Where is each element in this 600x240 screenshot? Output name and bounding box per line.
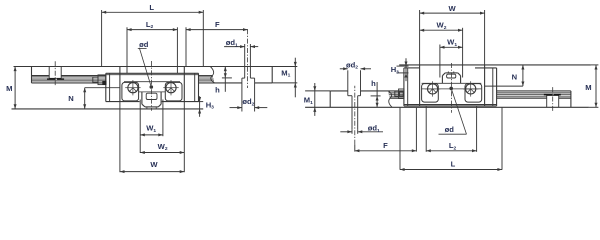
svg-text:N: N bbox=[68, 94, 73, 103]
dimension L2 bbox=[127, 29, 177, 31]
right rail hole leader dot bbox=[449, 87, 453, 91]
mounting datum line bbox=[399, 64, 591, 66]
rail reference top line bbox=[14, 66, 298, 68]
right block centerline bbox=[450, 63, 452, 113]
dimension W2 bbox=[140, 152, 184, 154]
dimension od1 bbox=[224, 46, 245, 48]
right dimension od2 bbox=[340, 68, 348, 70]
right dimension N bbox=[522, 65, 524, 86]
right block front view sides bbox=[419, 65, 421, 106]
right dimension F extensions bbox=[354, 145, 356, 152]
svg-text:N: N bbox=[512, 73, 517, 82]
right dimension od1 bbox=[351, 130, 353, 134]
dimension od2 extension lines bbox=[241, 83, 243, 112]
right rail tongue profile bbox=[445, 72, 458, 74]
left view block inner detail bbox=[32, 61, 199, 111]
dimension M1 bbox=[294, 58, 296, 98]
right dimension L bbox=[400, 169, 502, 171]
rail left end bbox=[31, 67, 33, 83]
dimension H3 reference bbox=[199, 101, 204, 103]
dimension F extension line bbox=[185, 27, 187, 66]
svg-text:h: h bbox=[215, 85, 220, 94]
right mounting hole circle right bbox=[466, 84, 476, 94]
right dimension L2 bbox=[426, 150, 476, 152]
svg-text:ød: ød bbox=[445, 125, 455, 134]
svg-text:L: L bbox=[451, 160, 456, 169]
bolt pocket left bbox=[122, 82, 139, 101]
right block side view outline bbox=[403, 68, 405, 106]
dimension L2 extension lines bbox=[126, 27, 128, 73]
right dimension L2 extension lines bbox=[425, 106, 427, 152]
dimension N bbox=[84, 88, 86, 109]
svg-text:M: M bbox=[585, 83, 591, 92]
dimension W1 bbox=[140, 134, 163, 136]
rail hole centerline bbox=[247, 29, 249, 88]
right dimension h bbox=[376, 82, 378, 107]
rail hole d1 bore bbox=[244, 44, 246, 78]
rail height M1 reference bbox=[272, 82, 297, 84]
svg-text:F: F bbox=[383, 141, 388, 150]
right dimension W bbox=[420, 12, 485, 14]
dimension h bbox=[224, 67, 226, 92]
rail hole centerline bbox=[354, 86, 356, 145]
svg-text:h: h bbox=[371, 79, 376, 88]
rail bolt hole bbox=[48, 67, 50, 79]
mounting datum line bbox=[12, 108, 204, 110]
right dimension W1 extension line bbox=[439, 45, 441, 78]
right rail bolt hole bbox=[546, 96, 548, 108]
block end seal lines bbox=[109, 73, 111, 101]
dimension L extension lines bbox=[101, 10, 103, 67]
left view dimension annotations bbox=[6, 3, 297, 173]
right bolt pocket left bbox=[422, 84, 439, 103]
bolt pocket right bbox=[165, 82, 182, 101]
right bolt pocket right bbox=[465, 84, 482, 103]
block front view sides bbox=[119, 67, 121, 102]
right dimension H3 references bbox=[397, 65, 409, 67]
right view block inner detail bbox=[395, 63, 571, 113]
rail right segment grooves bbox=[199, 75, 213, 77]
svg-text:M: M bbox=[6, 84, 12, 93]
right block end seal lines bbox=[407, 68, 409, 106]
dimension L bbox=[102, 11, 204, 13]
bolt seat black bars bbox=[47, 78, 56, 80]
right dimension F bbox=[355, 150, 417, 152]
dimension H3 bbox=[199, 96, 201, 117]
svg-text:W: W bbox=[150, 160, 158, 169]
right dimension N reference bbox=[485, 85, 523, 87]
rail height M1 reference bbox=[305, 90, 330, 92]
right grease nipple bbox=[399, 89, 404, 99]
mounting hole circle right bbox=[166, 83, 176, 93]
rail left segment grooves bbox=[32, 75, 50, 77]
right dimension M1 bbox=[314, 83, 316, 116]
grease nipple bbox=[98, 75, 106, 85]
rail right segment grooves bbox=[390, 97, 404, 99]
right block saddle line bbox=[422, 82, 482, 84]
right rail tongue inner slot bbox=[447, 74, 456, 78]
dimension od2 bbox=[230, 107, 242, 109]
dimension F bbox=[186, 29, 248, 31]
rail right end bbox=[329, 91, 331, 107]
rail break line bbox=[388, 91, 392, 107]
right bolt centerline bbox=[552, 87, 554, 112]
rail right end bbox=[271, 67, 273, 83]
dimension M bbox=[14, 67, 16, 109]
block centerline bbox=[150, 61, 152, 111]
rail hole d1 bore bbox=[357, 96, 359, 130]
svg-text:L: L bbox=[149, 3, 154, 12]
label od leader bbox=[138, 47, 147, 49]
block side view outline bbox=[105, 73, 107, 101]
right dimension od2 extension lines bbox=[347, 70, 349, 91]
left view core geometry bbox=[12, 29, 298, 109]
right dimension H3 bbox=[405, 58, 407, 81]
right dimension W1 bbox=[440, 46, 463, 48]
right dimension W extension lines bbox=[419, 10, 421, 65]
right circle axis line bbox=[422, 88, 482, 90]
right rail end bbox=[570, 91, 572, 107]
dimension W2 extension line bbox=[139, 136, 141, 153]
block bottom line bbox=[106, 101, 140, 103]
dimension W extension lines bbox=[119, 102, 121, 173]
dimension N reference bbox=[85, 87, 120, 89]
svg-text:W: W bbox=[449, 4, 457, 13]
right dimension W2 bbox=[420, 29, 463, 31]
right view core geometry (rotated 180) bbox=[305, 65, 591, 145]
right dimension L extension lines bbox=[399, 108, 401, 170]
rail hole leader dot bbox=[150, 85, 154, 89]
right view dimension annotations bbox=[304, 4, 599, 171]
rail tongue profile bbox=[139, 91, 166, 93]
right dimension W2 extension line bbox=[462, 28, 464, 78]
right rail segment grooves bbox=[497, 97, 547, 99]
svg-text:ød: ød bbox=[139, 40, 149, 49]
block saddle line bbox=[124, 81, 180, 83]
dimension W1 extension lines bbox=[139, 100, 141, 137]
right label od leader bbox=[439, 133, 467, 135]
right mounting hole circle left bbox=[428, 84, 438, 94]
right bolt seat black bars bbox=[544, 94, 553, 96]
rail hole d2 counterbore bbox=[360, 91, 362, 96]
dimension W bbox=[120, 171, 184, 173]
rail break line bbox=[210, 67, 214, 83]
bolt centerline bbox=[54, 61, 56, 86]
rail tongue inner slot bbox=[146, 93, 157, 99]
right dimension M reference extensions bbox=[591, 64, 599, 66]
right dimension M bbox=[595, 65, 597, 107]
svg-text:F: F bbox=[215, 20, 220, 29]
rail reference top line bbox=[305, 106, 589, 108]
rail hole d2 counterbore bbox=[241, 78, 243, 83]
mounting hole circle left bbox=[128, 83, 138, 93]
